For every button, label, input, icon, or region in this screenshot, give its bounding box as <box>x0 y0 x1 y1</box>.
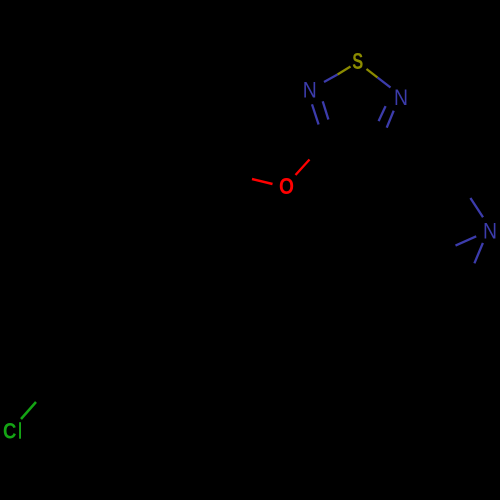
bond amineN-C up (N half) <box>470 198 483 217</box>
bond S1-N5 (S half) <box>367 69 378 78</box>
svg-text:N: N <box>483 218 497 243</box>
bond amineN-C down (N half) <box>474 243 483 263</box>
bond amineN-CH3 left (N half) <box>456 236 477 245</box>
atom label Cl (chlorine): letter l <box>19 422 21 439</box>
svg-text:N: N <box>394 85 408 110</box>
bond S1-N2 (S half) <box>338 67 351 75</box>
bond O-C3(ring) (O half) <box>296 160 310 176</box>
svg-text:C: C <box>3 419 16 444</box>
svg-text:N: N <box>303 78 317 103</box>
double bond N2=C3 inner line (N half) <box>323 101 329 119</box>
bond Cl-CH2 (Cl half) <box>21 402 36 419</box>
svg-text:O: O <box>279 173 294 199</box>
bond O-CH2 chain (O half) <box>252 179 273 184</box>
double bond N5=C4 main line (N half) <box>387 111 394 128</box>
svg-text:S: S <box>352 48 363 74</box>
bond S1-N2 (N half) <box>324 75 338 83</box>
double bond N2=C3 main line (N half) <box>312 104 319 124</box>
bond S1-N5 (N half) <box>378 78 391 88</box>
double bond N5=C4 inner line (N half) <box>379 106 386 121</box>
